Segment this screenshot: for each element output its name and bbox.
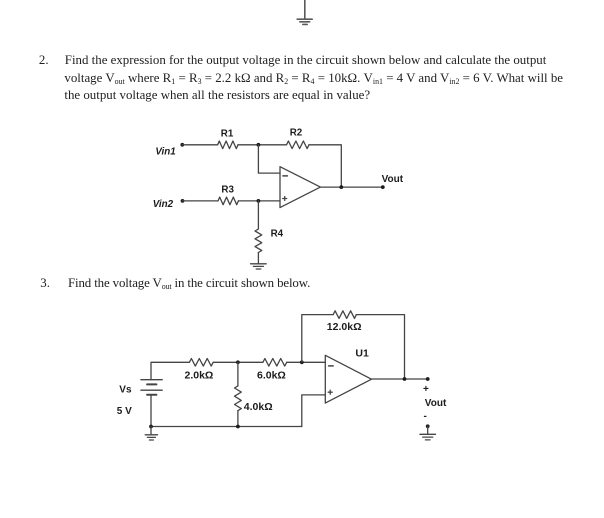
wire feedback left riser xyxy=(302,315,333,363)
wire battery bottom xyxy=(150,395,152,427)
svg-text:R1: R1 xyxy=(221,128,234,139)
svg-text:Vin1: Vin1 xyxy=(155,146,175,157)
svg-text:R2: R2 xyxy=(290,128,303,139)
svg-text:R3: R3 xyxy=(221,185,234,196)
resistor R1 xyxy=(218,141,238,149)
svg-text:2.0kΩ: 2.0kΩ xyxy=(185,370,214,382)
wire 2.0k to 6.0k xyxy=(213,361,263,363)
node feedback-output junction xyxy=(339,185,343,189)
resistor R4 xyxy=(255,229,262,253)
node ground terminal below Vout xyxy=(426,424,430,428)
ground below R4 xyxy=(251,264,267,269)
resistor 4.0k xyxy=(235,386,242,411)
wire 6.0k to op-amp inverting input xyxy=(287,361,326,363)
resistor R3 xyxy=(218,197,238,205)
ground (partial, top of page) xyxy=(297,0,312,24)
wire R1 to R2 xyxy=(238,144,287,146)
node 4.0k bottom junction xyxy=(236,425,240,429)
svg-text:12.0kΩ: 12.0kΩ xyxy=(327,321,362,333)
wire bottom rail xyxy=(151,426,302,428)
problem 2 statement text xyxy=(39,52,49,69)
svg-text:R4: R4 xyxy=(271,229,284,240)
wire feedback right down to output xyxy=(356,315,404,379)
svg-text:+: + xyxy=(423,384,429,395)
node inverting input junction xyxy=(257,143,261,147)
wire divider junction down to 4.0k xyxy=(237,362,239,386)
svg-text:4.0kΩ: 4.0kΩ xyxy=(244,401,273,413)
node Vin1 terminal xyxy=(180,143,184,147)
ground below Vout xyxy=(420,434,436,440)
wire Vin1 to R1 xyxy=(182,144,217,146)
wire op-amp output xyxy=(372,378,428,380)
resistor 6.0k xyxy=(263,359,287,367)
wire Vout ground stem xyxy=(427,426,429,434)
node Vin2 terminal xyxy=(181,199,185,203)
wire junction down to R4 xyxy=(257,201,259,229)
node inverting junction xyxy=(300,360,304,364)
node divider junction xyxy=(236,360,240,364)
resistor R2 xyxy=(287,141,310,149)
resistor 2.0k xyxy=(189,359,213,367)
node Vout terminal xyxy=(381,185,385,189)
node battery bottom junction xyxy=(149,425,153,429)
node noninverting junction xyxy=(257,199,261,203)
wire R4 to ground xyxy=(257,253,259,264)
wire R3 to op-amp noninverting input xyxy=(238,200,280,202)
svg-text:-: - xyxy=(424,411,427,422)
svg-text:Vin2: Vin2 xyxy=(153,199,174,210)
wire battery top to 2.0k xyxy=(151,362,189,379)
op-amp U1 xyxy=(325,355,371,403)
wire Vin2 to R3 xyxy=(183,200,219,202)
svg-text:Vs: Vs xyxy=(119,385,132,396)
svg-text:5 V: 5 V xyxy=(117,406,132,417)
ground below battery xyxy=(145,427,157,441)
resistor 12.0k feedback xyxy=(333,311,356,319)
node Vout terminal xyxy=(426,377,430,381)
svg-text:6.0kΩ: 6.0kΩ xyxy=(257,370,286,382)
op-amp A1 xyxy=(280,167,320,208)
battery Vs xyxy=(141,380,162,395)
node output feedback junction xyxy=(403,377,407,381)
svg-text:Vout: Vout xyxy=(425,398,447,409)
wire R2 to feedback corner xyxy=(309,145,341,187)
svg-text:Vout: Vout xyxy=(382,174,404,185)
wire op-amp output to Vout xyxy=(320,186,382,188)
wire 4.0k to bottom rail xyxy=(237,411,239,427)
wire bottom rail riser to noninverting input xyxy=(302,395,326,427)
wire junction down to op-amp inverting input xyxy=(258,145,280,173)
svg-text:U1: U1 xyxy=(355,348,369,360)
problem 3 statement text xyxy=(40,275,50,292)
